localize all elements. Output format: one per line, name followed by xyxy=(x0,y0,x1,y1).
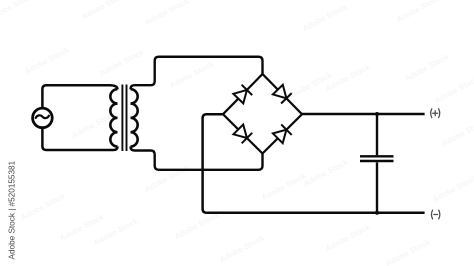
svg-text:Adobe Stock: Adobe Stock xyxy=(260,171,308,202)
svg-text:Adobe Stock: Adobe Stock xyxy=(168,59,216,90)
svg-text:Adobe Stock: Adobe Stock xyxy=(218,233,266,264)
wire: secondary top to bridge top vertex xyxy=(131,57,263,89)
wire: AC source top to primary coil top xyxy=(42,85,117,107)
wire: capacitor branch lower xyxy=(376,162,378,212)
wire: primary coil bottom to AC source bottom xyxy=(42,129,117,150)
wire: capacitor branch upper xyxy=(376,114,378,155)
bridge diamond edges xyxy=(223,74,302,154)
svg-text:Adobe Stock: Adobe Stock xyxy=(324,222,372,253)
svg-text:Adobe Stock: Adobe Stock xyxy=(440,117,474,148)
svg-text:Adobe Stock: Adobe Stock xyxy=(431,173,474,204)
label (-) xyxy=(431,210,439,219)
svg-text:Adobe Stock: Adobe Stock xyxy=(403,52,451,83)
svg-text:Adobe Stock: Adobe Stock xyxy=(395,0,443,24)
transformer secondary winding xyxy=(131,89,138,146)
wire: bridge left vertex to (-) output rail xyxy=(203,114,425,213)
svg-text:Adobe Stock: Adobe Stock xyxy=(143,163,191,194)
svg-text:Adobe Stock | #520155381: Adobe Stock | #520155381 xyxy=(8,160,17,259)
diode D4 (bottom to right) xyxy=(273,124,292,143)
diode D2 (top to right) xyxy=(273,85,292,104)
junction dot at (-) rail xyxy=(375,211,379,215)
svg-text:Adobe Stock: Adobe Stock xyxy=(301,2,349,33)
transformer primary winding xyxy=(110,89,117,146)
svg-text:Adobe Stock: Adobe Stock xyxy=(143,0,191,27)
svg-text:Adobe Stock: Adobe Stock xyxy=(98,47,146,78)
transformer core line 2 xyxy=(126,85,128,152)
svg-text:Adobe Stock: Adobe Stock xyxy=(384,237,432,266)
wire: secondary bottom to bridge bottom vertex xyxy=(131,147,263,170)
capacitor C1 plate 2 xyxy=(360,160,394,162)
svg-text:Adobe Stock: Adobe Stock xyxy=(433,74,474,105)
diode D1 (left to top) xyxy=(233,85,252,104)
svg-text:Adobe Stock: Adobe Stock xyxy=(23,45,71,76)
label (+) xyxy=(431,109,440,118)
svg-text:Adobe Stock: Adobe Stock xyxy=(80,0,128,21)
svg-text:Adobe Stock: Adobe Stock xyxy=(19,191,67,222)
svg-text:Adobe Stock: Adobe Stock xyxy=(0,0,35,22)
svg-text:Adobe Stock: Adobe Stock xyxy=(302,157,350,188)
svg-text:Adobe Stock: Adobe Stock xyxy=(173,210,221,241)
wire: bridge right vertex to (+) terminal xyxy=(302,113,425,116)
ac source V1 xyxy=(33,108,53,128)
diode D3 (left to bottom) xyxy=(233,125,252,144)
junction dot at (+) rail xyxy=(375,112,379,116)
capacitor C1 plate 1 xyxy=(360,155,394,157)
transformer core line 1 xyxy=(121,85,123,152)
